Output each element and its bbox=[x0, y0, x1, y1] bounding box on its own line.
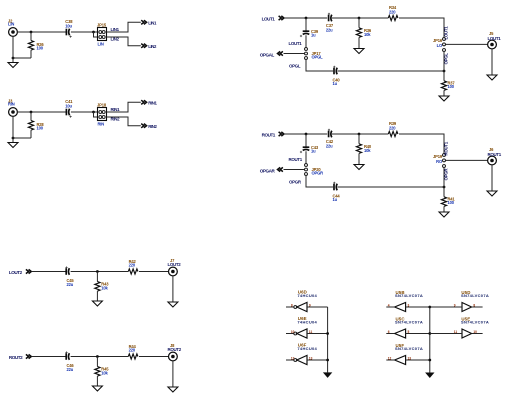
net arrow LIN2 bbox=[141, 44, 146, 48]
wire bbox=[406, 359, 430, 361]
wire bbox=[71, 271, 129, 273]
wire bbox=[107, 117, 141, 126]
capacitor C45 22u bbox=[65, 268, 67, 275]
wire bbox=[406, 306, 430, 308]
wire bbox=[443, 167, 445, 187]
wire bbox=[286, 333, 294, 335]
buffer U5D SN74LVC07A bbox=[462, 303, 472, 312]
svg-text:22u: 22u bbox=[67, 282, 74, 287]
wire bbox=[17, 31, 66, 33]
svg-text:OPGL: OPGL bbox=[312, 54, 324, 59]
capacitor C37 22u bbox=[328, 15, 330, 22]
wire bbox=[94, 112, 98, 117]
resistor R39 220 bbox=[388, 131, 398, 136]
junction bbox=[428, 306, 431, 309]
buffer U5C SN74LVC07A bbox=[395, 329, 406, 338]
wire bbox=[307, 306, 328, 308]
capacitor C40 1u bbox=[333, 68, 335, 75]
wire bbox=[491, 49, 493, 75]
net arrow RIN1 bbox=[141, 100, 146, 104]
jack J8 ROUT2 bbox=[169, 352, 178, 361]
junction bbox=[305, 17, 308, 20]
wire bbox=[172, 361, 174, 387]
svg-text:RIN1: RIN1 bbox=[148, 101, 157, 106]
ground bbox=[354, 49, 364, 54]
svg-text:RIN1: RIN1 bbox=[111, 107, 121, 112]
header JP16 bbox=[443, 38, 446, 41]
capacitor C38 10u bbox=[65, 29, 67, 36]
resistor R42 220 bbox=[128, 269, 138, 274]
wire bbox=[430, 333, 462, 335]
resistor R28 bbox=[30, 112, 32, 121]
header JP17 bbox=[305, 48, 308, 51]
svg-text:ROUT1: ROUT1 bbox=[488, 152, 502, 157]
wire bbox=[443, 51, 445, 71]
wire bbox=[472, 306, 483, 308]
wire bbox=[286, 359, 294, 361]
ground bbox=[323, 372, 332, 378]
capacitor C43 1u bbox=[305, 134, 307, 147]
svg-text:RIN: RIN bbox=[8, 102, 15, 107]
junction bbox=[30, 111, 33, 114]
wire bbox=[445, 43, 488, 45]
svg-text:100: 100 bbox=[37, 46, 44, 51]
svg-text:100: 100 bbox=[448, 84, 455, 89]
svg-text:74HCU04: 74HCU04 bbox=[297, 293, 317, 298]
svg-text:RIN2: RIN2 bbox=[111, 117, 121, 122]
header JP19 bbox=[443, 154, 446, 157]
wire bbox=[107, 102, 141, 112]
jack J3 RIN input bbox=[9, 108, 18, 117]
wire bbox=[338, 186, 444, 188]
wire bbox=[399, 18, 444, 38]
svg-text:220: 220 bbox=[389, 9, 396, 14]
wire bbox=[332, 17, 388, 19]
wire bbox=[71, 356, 129, 358]
svg-text:ROUT1: ROUT1 bbox=[289, 157, 303, 162]
svg-text:74HCU04: 74HCU04 bbox=[297, 346, 317, 351]
buffer U5F SN74LVC07A bbox=[395, 356, 406, 365]
svg-text:RO: RO bbox=[436, 159, 443, 164]
svg-text:10k: 10k bbox=[364, 32, 371, 37]
header JP18 bbox=[98, 108, 107, 121]
svg-text:10u: 10u bbox=[65, 103, 72, 108]
wire bbox=[491, 165, 493, 191]
inverter U6D 74HCU04 bbox=[297, 302, 307, 311]
junction bbox=[443, 70, 446, 73]
svg-text:SN74LVC07A: SN74LVC07A bbox=[461, 293, 489, 298]
svg-text:10k: 10k bbox=[364, 148, 371, 153]
resistor R26 bbox=[30, 32, 32, 41]
junction bbox=[12, 57, 15, 60]
wire bbox=[338, 70, 444, 72]
svg-text:LIN2: LIN2 bbox=[111, 37, 120, 42]
capacitor C46 22u bbox=[65, 353, 67, 360]
svg-text:OPGR: OPGR bbox=[312, 170, 324, 175]
capacitor C41 10u bbox=[65, 109, 67, 116]
svg-text:22u: 22u bbox=[326, 143, 333, 148]
jack J6 ROUT1 bbox=[488, 156, 497, 165]
junction bbox=[305, 133, 308, 136]
wire bbox=[445, 159, 488, 161]
capacitor C44 1u bbox=[333, 184, 335, 191]
ground bbox=[92, 386, 102, 391]
svg-text:LOUT2: LOUT2 bbox=[168, 262, 182, 267]
wire bbox=[406, 333, 430, 335]
junction bbox=[92, 31, 95, 34]
svg-text:LOUT1: LOUT1 bbox=[488, 36, 502, 41]
svg-text:220: 220 bbox=[129, 347, 136, 352]
wire bbox=[430, 306, 462, 308]
wire bbox=[107, 37, 141, 46]
resistor R36 10k bbox=[358, 18, 360, 28]
jack J7 LOUT2 bbox=[169, 267, 178, 276]
svg-text:LIN1: LIN1 bbox=[148, 21, 157, 26]
wire bbox=[306, 59, 333, 71]
wire bus bbox=[327, 307, 329, 372]
wire bbox=[13, 137, 31, 139]
svg-text:JP15: JP15 bbox=[97, 22, 107, 27]
wire bbox=[13, 57, 31, 59]
junction bbox=[358, 17, 361, 20]
wire bbox=[284, 169, 305, 171]
junction bbox=[96, 270, 99, 273]
wire bbox=[307, 359, 328, 361]
svg-text:ROUT2: ROUT2 bbox=[9, 355, 23, 360]
wire bbox=[32, 356, 66, 358]
junction bbox=[428, 332, 431, 335]
wire bbox=[17, 111, 66, 113]
svg-text:LOUT2: LOUT2 bbox=[9, 270, 23, 275]
wire bbox=[94, 32, 98, 37]
wire bbox=[286, 306, 294, 308]
svg-text:100: 100 bbox=[448, 200, 455, 205]
jack J2 LIN input bbox=[9, 28, 18, 37]
ground bbox=[425, 373, 434, 379]
resistor R43 10k bbox=[96, 272, 98, 282]
wire bbox=[107, 22, 141, 32]
svg-text:1u: 1u bbox=[333, 197, 338, 202]
svg-text:SN74LVC07A: SN74LVC07A bbox=[461, 320, 489, 325]
ground bbox=[8, 63, 18, 68]
wire bbox=[472, 333, 483, 335]
svg-text:LIN: LIN bbox=[98, 42, 104, 47]
junction bbox=[92, 111, 95, 114]
svg-text:100: 100 bbox=[37, 126, 44, 131]
svg-text:74HCU04: 74HCU04 bbox=[297, 320, 317, 325]
svg-text:ROUT1: ROUT1 bbox=[444, 141, 449, 155]
wire bbox=[284, 17, 327, 19]
net arrow RIN2 bbox=[141, 124, 146, 128]
wire bbox=[305, 35, 307, 48]
svg-text:220: 220 bbox=[129, 262, 136, 267]
wire bbox=[305, 151, 307, 164]
svg-text:SN74LVC07A: SN74LVC07A bbox=[395, 293, 423, 298]
wire bbox=[12, 36, 14, 62]
svg-text:1u: 1u bbox=[333, 81, 338, 86]
ground bbox=[439, 212, 449, 217]
wire bbox=[307, 333, 328, 335]
inverter U6E 74HCU04 bbox=[297, 329, 307, 338]
svg-text:22u: 22u bbox=[326, 27, 333, 32]
wire bbox=[386, 306, 394, 308]
ground bbox=[168, 302, 178, 307]
junction bbox=[12, 137, 15, 140]
svg-text:10u: 10u bbox=[65, 23, 72, 28]
svg-text:SN74LVC07A: SN74LVC07A bbox=[395, 320, 423, 325]
wire bus bbox=[429, 307, 431, 373]
svg-text:JP18: JP18 bbox=[97, 102, 107, 107]
svg-text:OPGL: OPGL bbox=[289, 63, 301, 68]
capacitor C42 22u bbox=[328, 131, 330, 138]
svg-text:220: 220 bbox=[389, 125, 396, 130]
ground bbox=[92, 301, 102, 306]
svg-text:LIN1: LIN1 bbox=[111, 27, 120, 32]
svg-text:22u: 22u bbox=[67, 367, 74, 372]
wire bbox=[172, 276, 174, 302]
wire bbox=[399, 134, 444, 154]
junction bbox=[358, 133, 361, 136]
buffer U5E SN74LVC07A bbox=[462, 329, 472, 338]
svg-text:LOUT1: LOUT1 bbox=[289, 41, 303, 46]
svg-text:1u: 1u bbox=[311, 149, 316, 154]
resistor R bottom bbox=[443, 71, 445, 81]
wire bbox=[332, 133, 388, 135]
svg-text:OPGAL: OPGAL bbox=[260, 53, 275, 58]
jack J5 LOUT1 bbox=[488, 40, 497, 49]
svg-text:OPGR: OPGR bbox=[289, 179, 302, 184]
wire bbox=[12, 116, 14, 142]
svg-text:RIN: RIN bbox=[98, 122, 105, 127]
svg-text:SN74LVC07A: SN74LVC07A bbox=[395, 346, 423, 351]
svg-text:ROUT1: ROUT1 bbox=[262, 132, 276, 137]
ground bbox=[439, 96, 449, 101]
svg-text:1u: 1u bbox=[311, 33, 316, 38]
capacitor C39 1u bbox=[305, 18, 307, 31]
svg-text:LIN2: LIN2 bbox=[148, 44, 157, 49]
wire bbox=[139, 356, 169, 358]
junction bbox=[326, 359, 329, 362]
wire bbox=[386, 359, 394, 361]
wire bbox=[71, 111, 98, 113]
resistor R45 10k bbox=[96, 357, 98, 367]
wire bbox=[71, 31, 98, 33]
ground bbox=[487, 75, 497, 80]
ground bbox=[8, 143, 18, 148]
inverter U6F 74HCU04 bbox=[297, 355, 307, 364]
buffer U5B SN74LVC07A bbox=[395, 303, 406, 312]
ground bbox=[168, 387, 178, 392]
ground bbox=[487, 191, 497, 196]
net arrow LIN1 bbox=[141, 20, 146, 24]
wire bbox=[386, 333, 394, 335]
resistor R34 220 bbox=[388, 15, 398, 20]
junction bbox=[428, 359, 431, 362]
junction bbox=[30, 31, 33, 34]
svg-text:LIN: LIN bbox=[8, 22, 14, 27]
svg-text:OPGAR: OPGAR bbox=[260, 169, 276, 174]
svg-text:LOUT1: LOUT1 bbox=[444, 26, 449, 40]
svg-text:ROUT2: ROUT2 bbox=[168, 347, 182, 352]
ground bbox=[354, 165, 364, 170]
header JP15 bbox=[98, 28, 107, 41]
resistor R44 220 bbox=[128, 354, 138, 359]
svg-text:10k: 10k bbox=[101, 285, 108, 290]
wire bbox=[284, 53, 305, 55]
svg-text:RIN2: RIN2 bbox=[148, 124, 157, 129]
wire bbox=[139, 271, 169, 273]
svg-text:10k: 10k bbox=[101, 370, 108, 375]
svg-text:LOUT1: LOUT1 bbox=[262, 16, 276, 21]
resistor R bottom bbox=[443, 187, 445, 197]
wire bbox=[284, 133, 327, 135]
header JP20 bbox=[305, 164, 308, 167]
junction bbox=[96, 355, 99, 358]
junction bbox=[326, 332, 329, 335]
junction bbox=[443, 186, 446, 189]
wire bbox=[306, 175, 333, 187]
resistor R40 10k bbox=[358, 134, 360, 144]
wire bbox=[32, 271, 66, 273]
